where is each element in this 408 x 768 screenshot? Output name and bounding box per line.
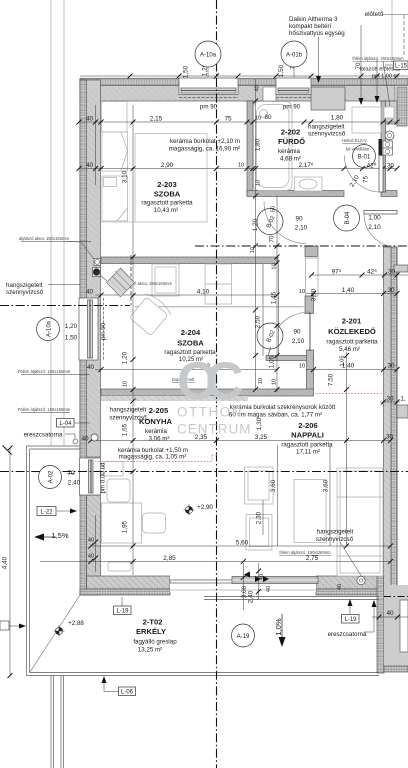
vertical dim line x258.5 south [258, 563, 260, 600]
svg-text:FÜRDŐ: FÜRDŐ [278, 137, 305, 146]
svg-text:75: 75 [363, 176, 370, 184]
svg-text:L-04: L-04 [59, 421, 72, 427]
detail circle A-10a top [195, 41, 221, 67]
horizontal axis y471.5 [0, 471, 408, 473]
shaft diamond between rooms [107, 268, 135, 297]
dimension line y369.5 szoba 2-204 [95, 369, 278, 371]
leader L-15 [385, 64, 393, 66]
sofa nappali [246, 515, 272, 551]
horizontal axis stub y596.5 right [384, 596, 408, 598]
svg-text:ragasztott parketta: ragasztott parketta [326, 339, 378, 346]
svg-text:30: 30 [387, 287, 395, 294]
svg-text:1,45: 1,45 [271, 291, 278, 304]
pipe boxes on left wall [94, 259, 101, 266]
svg-text:40: 40 [86, 116, 94, 123]
label box L-15 [394, 61, 408, 70]
svg-text:1,80: 1,80 [255, 138, 262, 151]
survey marker +2,90 [184, 505, 195, 516]
svg-text:2-201: 2-201 [342, 317, 362, 326]
vertical dim line x277.5 nappali [277, 445, 279, 546]
black ventilation bar fürdő [379, 139, 383, 155]
svg-text:ereszcsatorna: ereszcsatorna [24, 432, 63, 439]
svg-text:+2,88: +2,88 [68, 620, 84, 627]
dimension line y275 közlekedő [311, 274, 408, 276]
svg-text:magasságig, ca. 1,05 m²: magasságig, ca. 1,05 m² [119, 454, 187, 461]
svg-text:40: 40 [386, 610, 394, 617]
svg-text:kerámia: kerámia [145, 428, 168, 435]
south-east corner column hatch [377, 576, 384, 673]
svg-text:30: 30 [387, 163, 395, 170]
vertical dim line x346.5 [346, 352, 348, 546]
svg-text:Helios ELS-V: Helios ELS-V [342, 138, 367, 143]
svg-text:1,65: 1,65 [122, 423, 129, 436]
dimension line y561.5 [40, 561, 390, 563]
svg-text:90: 90 [293, 329, 301, 336]
top dimension line y77 [80, 75, 408, 77]
svg-text:1,05: 1,05 [340, 356, 346, 367]
svg-text:pm 0,00 ud: pm 0,00 ud [100, 462, 107, 494]
svg-text:3,60: 3,60 [270, 479, 277, 492]
svg-text:1,05: 1,05 [269, 355, 276, 368]
svg-text:10: 10 [299, 289, 305, 295]
svg-text:1,30: 1,30 [256, 417, 263, 430]
terrace north-west edge [27, 445, 81, 447]
svg-text:hőszivattyús egység: hőszivattyús egység [289, 30, 345, 37]
svg-text:2-202: 2-202 [281, 128, 300, 137]
svg-text:3,10: 3,10 [122, 170, 129, 183]
svg-text:NAPPALI: NAPPALI [291, 431, 324, 440]
svg-text:5,60: 5,60 [236, 540, 249, 547]
svg-text:B-01: B-01 [358, 155, 371, 161]
előtető dashed outline top right [403, 15, 405, 56]
svg-text:2,40: 2,40 [68, 480, 81, 487]
label box L-19 right [342, 615, 360, 624]
svg-text:3,90: 3,90 [311, 288, 318, 301]
interior wall between konyha/nappali and rooms [101, 389, 314, 396]
dimension line y295 közlekedő [306, 293, 397, 295]
cabinet row nappali east wall [337, 468, 383, 576]
dashed sill line below window W1 [179, 97, 238, 99]
svg-text:10,43 m²: 10,43 m² [154, 207, 178, 214]
svg-text:1,50: 1,50 [183, 65, 190, 78]
svg-text:1,50: 1,50 [278, 64, 285, 77]
partition faces east of szoba 2-204 [262, 264, 264, 357]
svg-text:1,80: 1,80 [331, 115, 344, 122]
door B-01 leaf fürdő [379, 156, 383, 193]
svg-text:10: 10 [299, 364, 305, 370]
svg-text:2,75: 2,75 [306, 555, 319, 562]
svg-text:1,20: 1,20 [122, 351, 129, 364]
desk room 2-204 [152, 264, 179, 296]
svg-text:átjátszó akna: 150x150mm: átjátszó akna: 150x150mm [19, 236, 70, 241]
svg-text:2,15: 2,15 [150, 116, 163, 123]
svg-text:L-22: L-22 [40, 510, 53, 516]
fürdő north-east stub wall [311, 87, 345, 110]
wardrobe room 2-203 [102, 132, 128, 171]
svg-text:szennyvízcső: szennyvízcső [6, 289, 44, 296]
svg-text:75: 75 [224, 116, 232, 123]
top outer wall insulation hatch [80, 78, 408, 85]
közlekedő west wall lower [307, 350, 314, 390]
svg-text:ragasztott parketta: ragasztott parketta [281, 442, 333, 449]
svg-text:17,11 m²: 17,11 m² [296, 449, 320, 456]
leader L-19 left [121, 597, 123, 606]
label box L-22 [37, 507, 56, 516]
svg-text:hangszigetelt: hangszigetelt [110, 407, 147, 414]
svg-text:szennyvízcső: szennyvízcső [109, 415, 147, 422]
left leader line fölém átjátszó 1 [21, 374, 90, 376]
előtető leader line [382, 14, 408, 16]
svg-text:80: 80 [264, 114, 272, 121]
előtétfal strip right of fürdő [381, 101, 386, 192]
detail circle A-10a left [37, 318, 60, 341]
svg-text:40: 40 [86, 289, 94, 296]
orange tile-zone dotted line konyha [95, 394, 385, 462]
svg-text:1,20: 1,20 [252, 218, 259, 231]
svg-text:+2,90: +2,90 [197, 504, 213, 511]
svg-text:3,25: 3,25 [255, 434, 268, 441]
interior wall stub south-west of közlekedő [266, 356, 314, 361]
washbasin fürdő [295, 177, 323, 191]
horizontal axis y305.5 [0, 305, 130, 307]
dimension line y369.5 közlekedő [306, 369, 397, 371]
detail circle B-02 top [257, 209, 283, 235]
dashed sill line below window W2 [276, 97, 311, 99]
svg-text:pm 90: pm 90 [283, 104, 301, 111]
dimension line y440.5 konyha/nappali [91, 440, 391, 442]
dashed line x131 room 2-204 [130, 255, 132, 305]
svg-text:SZOBA: SZOBA [177, 339, 204, 348]
left outer wall gray body [80, 80, 101, 457]
svg-text:A-10a: A-10a [200, 53, 217, 59]
svg-text:kerámia burkolat +2,10 m: kerámia burkolat +2,10 m [170, 138, 240, 145]
south wall west hatched section [87, 576, 171, 589]
svg-text:40: 40 [266, 586, 272, 592]
svg-text:4,40: 4,40 [2, 556, 9, 569]
kitchen appliance box [104, 462, 123, 477]
svg-text:10: 10 [255, 116, 261, 122]
svg-text:Fölém átjátszó: 150x150mm: Fölém átjátszó: 150x150mm [18, 407, 71, 412]
svg-text:30: 30 [386, 434, 394, 441]
leader hangszigetelt left [48, 284, 80, 286]
svg-text:40: 40 [86, 162, 94, 169]
svg-text:L-15: L-15 [395, 64, 408, 70]
svg-text:90: 90 [295, 216, 303, 223]
svg-text:kompakt beltéri: kompakt beltéri [289, 23, 331, 30]
leaders falazott előtétfal [360, 25, 362, 103]
detail circle B-04 [334, 205, 360, 231]
detail circle A-19 erkély [232, 624, 255, 647]
svg-text:OTTHON: OTTHON [177, 405, 243, 420]
terrace door left wall (konyha) [80, 458, 101, 495]
svg-text:magasságig, ca. 16,90 m²: magasságig, ca. 16,90 m² [169, 146, 240, 153]
svg-text:ereszcsatorna: ereszcsatorna [328, 631, 367, 638]
svg-text:hangszigetelt: hangszigetelt [6, 282, 43, 289]
svg-text:40: 40 [81, 436, 89, 443]
svg-text:97⁵: 97⁵ [332, 269, 342, 276]
door B-01 swing arc [345, 156, 382, 193]
svg-text:L-19: L-19 [116, 609, 129, 615]
svg-text:Fölém átjátszó: 150x150mm: Fölém átjátszó: 150x150mm [18, 369, 71, 374]
vertical dim line x263 nappali [262, 500, 264, 535]
svg-text:40: 40 [337, 584, 343, 590]
svg-text:40: 40 [88, 538, 94, 544]
svg-text:kerámia burkolat szekrénysorok: kerámia burkolat szekrénysorok között [230, 404, 336, 411]
svg-text:2,85: 2,85 [163, 555, 176, 562]
kitchen table [102, 503, 142, 543]
svg-text:2,10: 2,10 [295, 225, 308, 232]
fan circle fürdő [385, 131, 394, 140]
door B-04 leaf [364, 211, 397, 215]
window W2 top (fürdő) [276, 78, 311, 95]
door B-02 bottom leaf [309, 312, 311, 351]
svg-text:fal ventillátor: fal ventillátor [346, 147, 370, 152]
dimension line y617 bottom right [372, 616, 408, 618]
columns below balcony [50, 676, 52, 768]
label box L-06 [119, 687, 136, 696]
svg-text:L-06: L-06 [121, 690, 134, 696]
terrace south edge double line [27, 675, 380, 677]
wardrobe room 2-204 [205, 264, 232, 304]
fürdő west wall [247, 101, 253, 196]
closet room 2-203 top [102, 102, 128, 133]
svg-text:13,25 m²: 13,25 m² [138, 647, 162, 654]
detail circle B-02 bottom [257, 323, 283, 349]
svg-text:10: 10 [272, 379, 278, 385]
orange tile-zone dotted line nappali/közlekedő [316, 393, 385, 395]
plot line left [50, 0, 52, 446]
electric boxes fürdő [383, 141, 393, 148]
svg-text:1,50: 1,50 [65, 335, 78, 342]
svg-text:2-205: 2-205 [149, 406, 169, 415]
reference rect room 2-203 [135, 134, 207, 223]
svg-text:pm 90: pm 90 [100, 322, 107, 340]
svg-text:A-01b: A-01b [286, 53, 303, 59]
svg-text:10: 10 [272, 263, 278, 269]
svg-text:2-T02: 2-T02 [143, 618, 163, 627]
neighbour structure bottom-right gray [384, 585, 408, 672]
svg-text:Daikin Altherma 3: Daikin Altherma 3 [289, 16, 338, 23]
vertical dim line x277 [276, 196, 278, 392]
horizontal axis y246 [195, 245, 408, 247]
valve circle konyha wall [91, 434, 98, 441]
svg-text:1,: 1, [400, 396, 406, 403]
vertical dim line x255.5 [255, 79, 257, 390]
survey marker +2,88 [54, 626, 65, 637]
window W1 top (2-203) [179, 78, 238, 95]
interior wall between szoba 2-203 and 2-204 [101, 257, 278, 264]
svg-text:30: 30 [388, 269, 396, 276]
right outer wall gray body [384, 247, 398, 595]
main vertical axis [216, 0, 218, 768]
pipe circles on left wall [95, 260, 100, 265]
label box L-19 left [114, 606, 132, 615]
svg-text:2-204: 2-204 [181, 328, 201, 337]
right outer wall insulation strip [391, 247, 397, 595]
right wall pilaster notch 2 [397, 405, 408, 418]
svg-text:10: 10 [258, 378, 264, 384]
sliding door direction arrows [255, 576, 269, 582]
dimension line y295 szoba 2-204 [95, 294, 278, 296]
left leader line fölém átjátszó 2 [21, 412, 70, 414]
label box L-04 [57, 419, 75, 428]
niche in top wall left of window W2 [263, 87, 276, 101]
leader L-22 arrow [57, 510, 75, 512]
svg-text:7,50: 7,50 [328, 373, 335, 386]
detail circle A-01b top [281, 41, 307, 67]
svg-text:A-19: A-19 [237, 634, 250, 640]
svg-text:1,40: 1,40 [342, 287, 355, 294]
bed room 2-203 [102, 176, 128, 221]
svg-text:1,95: 1,95 [122, 520, 129, 533]
left leader line átjátszó akna [21, 241, 91, 243]
svg-text:2,90: 2,90 [161, 162, 174, 169]
svg-text:70: 70 [355, 62, 362, 70]
közlekedő west wall piece [305, 296, 314, 314]
svg-text:3,06 m²: 3,06 m² [149, 436, 170, 443]
terrace west edge double line [26, 446, 28, 676]
armchair nappali [245, 467, 274, 504]
svg-text:hangszigetelt: hangszigetelt [308, 124, 345, 131]
nappali terrace slab edge [204, 596, 379, 598]
svg-text:1,0%: 1,0% [274, 618, 283, 636]
svg-text:L-19: L-19 [344, 617, 357, 623]
svg-text:5,46 m²: 5,46 m² [339, 346, 360, 353]
svg-text:szennyvízcső: szennyvízcső [308, 131, 346, 138]
közlekedő cabinet [306, 258, 319, 296]
detail circle A-02 left [39, 466, 62, 489]
reference line room 2-204 [135, 306, 304, 308]
top-right wall corner hatch [397, 87, 407, 126]
svg-text:40: 40 [259, 574, 265, 580]
leader L-04 [74, 422, 90, 424]
svg-text:2,30: 2,30 [256, 511, 263, 524]
svg-text:2,10: 2,10 [292, 338, 305, 345]
svg-text:2,17⁶: 2,17⁶ [298, 162, 313, 169]
door B-02 bottom swing arc [277, 312, 310, 329]
svg-text:70: 70 [67, 470, 75, 477]
leader L-06 [104, 678, 119, 692]
dashed sill line beside window W3 [103, 298, 105, 360]
vertical dim line x95.5 left wall [95, 105, 97, 185]
dim line y402 right [380, 401, 400, 403]
svg-text:pm 90: pm 90 [200, 104, 218, 111]
terrace slope diagonal [30, 595, 80, 672]
svg-text:10: 10 [256, 180, 262, 186]
south wall east hatched section [316, 576, 383, 589]
svg-text:ERKÉLY: ERKÉLY [136, 627, 166, 636]
vertical dim line x10 terrace [9, 448, 11, 676]
chair room 2-204 [128, 292, 173, 337]
svg-text:1,00: 1,00 [368, 215, 381, 222]
leader ereszcsatorna right [364, 602, 374, 632]
svg-text:70: 70 [269, 235, 276, 243]
svg-text:1,5%: 1,5% [51, 531, 69, 540]
svg-text:pm 1,00 m: pm 1,00 m [372, 74, 399, 80]
dimension line y546 [91, 545, 391, 547]
közlekedő west wall upper stub [305, 246, 318, 257]
leader L-19 right [349, 601, 351, 614]
top outer wall gray body [80, 79, 395, 102]
boiler / előtétfal unit fürdő [352, 107, 381, 133]
sliding door south wall [170, 576, 316, 592]
svg-text:42⁶: 42⁶ [367, 269, 377, 276]
svg-text:B-04: B-04 [345, 211, 351, 224]
leader szennyvízcső nappali [340, 542, 362, 577]
svg-text:40: 40 [255, 85, 261, 91]
left wall lower diagonal-hatch section [87, 495, 101, 595]
svg-text:30: 30 [387, 363, 395, 370]
door B-02 top swing arc [264, 202, 306, 244]
svg-text:10: 10 [250, 247, 256, 253]
svg-text:fagyálló greslap: fagyálló greslap [133, 639, 177, 646]
svg-text:A-02: A-02 [49, 470, 55, 483]
svg-text:2-206: 2-206 [298, 421, 317, 430]
leader balcony edge left arrow [0, 625, 24, 627]
pipe circle top right wall [388, 130, 390, 132]
door B-04 swing arc [364, 214, 397, 247]
svg-text:3,60: 3,60 [323, 479, 330, 492]
svg-text:2,10: 2,10 [368, 224, 381, 231]
dimension line y168.5 [80, 168, 397, 170]
bathtub fürdő [254, 102, 293, 191]
slope arrow 1,5% konyha terrace [36, 536, 56, 538]
svg-text:szennyvízcső: szennyvízcső [316, 536, 354, 543]
dimension line y122 [80, 121, 397, 123]
sewage pipe circle south wall nappali [357, 576, 365, 584]
right wall top block [383, 101, 397, 124]
window W3 left wall (2-204) [79, 298, 98, 360]
svg-text:A-10a: A-10a [47, 320, 53, 337]
svg-text:1,20: 1,20 [65, 323, 78, 330]
svg-text:42⁰: 42⁰ [367, 163, 377, 170]
svg-text:10: 10 [238, 163, 244, 169]
svg-text:hangszigetelt: hangszigetelt [317, 529, 354, 536]
svg-text:KÖZLEKEDŐ: KÖZLEKEDŐ [328, 327, 376, 336]
detail circle B-01 [353, 145, 376, 168]
svg-text:CENTRUM: CENTRUM [177, 422, 252, 437]
leader ereszcsatorna left [65, 434, 75, 440]
kitchen chairs [107, 479, 130, 502]
svg-text:fölém átjátszó: 200x150mm: fölém átjátszó: 200x150mm [352, 56, 404, 61]
svg-text:40: 40 [88, 554, 94, 560]
svg-text:ragasztott parketta: ragasztott parketta [141, 200, 193, 207]
svg-text:30: 30 [386, 396, 394, 403]
svg-text:2,40: 2,40 [248, 590, 255, 603]
svg-text:10: 10 [123, 381, 129, 387]
svg-text:4,10: 4,10 [197, 289, 210, 296]
svg-text:2,50: 2,50 [255, 315, 262, 328]
svg-text:SZOBA: SZOBA [154, 190, 181, 199]
dining table nappali [294, 480, 326, 543]
svg-text:kerámia: kerámia [278, 148, 301, 155]
right wall pilaster notch 1 [394, 265, 408, 272]
left outer wall insulation strip [80, 80, 87, 595]
svg-text:40: 40 [87, 364, 95, 371]
svg-text:2-203: 2-203 [157, 180, 176, 189]
vertical dim line x133 [132, 105, 134, 575]
leader Daikin unit [318, 37, 320, 81]
fürdő south wall [247, 191, 344, 197]
slope arrow 1,0% erkély [281, 614, 283, 645]
svg-text:előtető: előtető [365, 11, 384, 18]
vertical dim line x330 nappali [329, 445, 331, 546]
